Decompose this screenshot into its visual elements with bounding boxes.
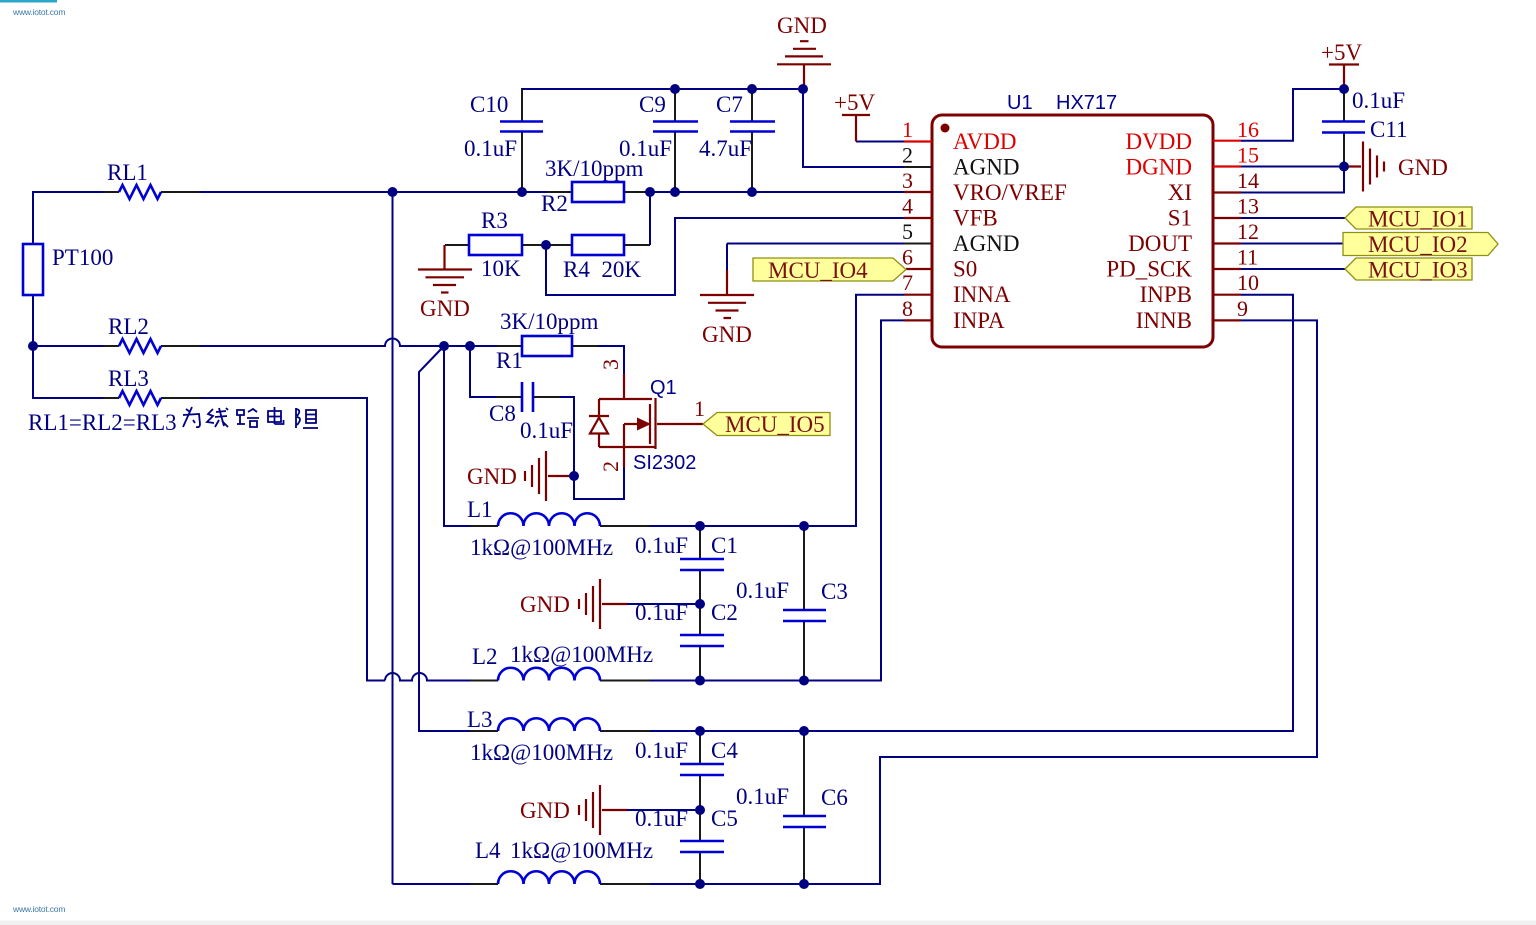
junction C7 top [747, 84, 757, 94]
ground symbol top (VRO rail) [777, 13, 831, 89]
svg-text:C11: C11 [1370, 117, 1408, 142]
svg-text:MCU_IO3: MCU_IO3 [1368, 258, 1468, 283]
svg-text:L4: L4 [475, 838, 501, 863]
svg-text:C2: C2 [711, 600, 738, 625]
junction PT100/RL2 [28, 341, 38, 351]
junction R3/R4 VFB tap [541, 240, 551, 250]
junction Q1 source GND [569, 471, 579, 481]
pin 10 INPB [1140, 270, 1259, 307]
resistor R2 3K/10ppm [541, 156, 649, 216]
resistor R3 10K [445, 208, 546, 281]
wire AGND pin5 to ground symbol [727, 243, 904, 245]
net flag MCU_IO4 [753, 258, 906, 283]
svg-text:MCU_IO4: MCU_IO4 [768, 258, 868, 283]
svg-text:2: 2 [902, 143, 913, 168]
junction top GND [798, 84, 808, 94]
svg-text:AVDD: AVDD [953, 129, 1016, 154]
wire node-B vertical to L1 row [444, 346, 498, 526]
junction C9 top [670, 84, 680, 94]
svg-text:0.1uF: 0.1uF [520, 418, 573, 443]
wire DGND pin15 [1241, 166, 1344, 168]
svg-text:L2: L2 [472, 644, 498, 669]
wire main VRO rail y=192 [161, 191, 904, 193]
capacitor C5 0.1uF [635, 806, 738, 884]
pin 5 AGND [902, 219, 1019, 256]
junction node-A on VRO rail [388, 187, 398, 197]
pin 3 VRO/VREF [902, 168, 1067, 205]
svg-text:1kΩ@100MHz: 1kΩ@100MHz [470, 740, 613, 765]
svg-text:2: 2 [598, 461, 623, 472]
svg-text:0.1uF: 0.1uF [736, 784, 789, 809]
svg-text:www.iotot.com: www.iotot.com [12, 7, 65, 17]
svg-text:10: 10 [1237, 270, 1259, 295]
svg-text:4.7uF: 4.7uF [699, 136, 752, 161]
svg-text:GND: GND [467, 464, 517, 489]
wire PT100 top lead to RL1 [33, 192, 119, 244]
junction C1/C2 GND [695, 599, 705, 609]
wire DOUT pin12 to MCU_IO2 [1241, 243, 1343, 245]
svg-text:C7: C7 [716, 92, 743, 117]
capacitor C8 0.1uF [489, 382, 573, 443]
junction C8 branch [465, 341, 475, 351]
svg-text:8: 8 [902, 296, 913, 321]
power port +5V (AVDD) [834, 90, 875, 142]
inductor L2 1kOhm@100MHz [470, 642, 653, 681]
svg-text:RL2: RL2 [108, 314, 149, 339]
capacitor C7 4.7uF [699, 89, 775, 192]
svg-text:GND: GND [1398, 155, 1448, 180]
wire L4 row [393, 883, 499, 885]
svg-text:R3: R3 [481, 208, 508, 233]
wire DVDD pin16 to +5V junction [1241, 89, 1344, 141]
svg-text:INPA: INPA [953, 308, 1005, 333]
ground symbol at R3 [418, 245, 472, 321]
pin 16 DVDD [1126, 117, 1259, 154]
capacitor C10 0.1uF [464, 89, 543, 192]
svg-text:1: 1 [694, 396, 705, 421]
wire +5V stem to C11 top [1343, 89, 1345, 122]
svg-text:C1: C1 [711, 533, 738, 558]
svg-text:C6: C6 [821, 785, 848, 810]
svg-text:R2: R2 [541, 191, 568, 216]
wire L4 row right with jog up to INNB pin 9 [600, 320, 1317, 884]
svg-text:R4 20K: R4 20K [563, 257, 641, 282]
pin 14 XI [1168, 168, 1259, 205]
svg-text:15: 15 [1237, 143, 1259, 168]
wire XI pin14 to DGND junction [1241, 167, 1344, 193]
wire top rail C10/C9/C7 to GND [522, 89, 803, 122]
wire VFB divider tap [546, 218, 904, 295]
inductor L1 1kOhm@100MHz [467, 497, 650, 560]
svg-text:1kΩ@100MHz: 1kΩ@100MHz [510, 838, 653, 863]
svg-text:5: 5 [902, 219, 913, 244]
wire S1 pin13 to MCU_IO1 [1241, 217, 1345, 219]
svg-text:3: 3 [902, 168, 913, 193]
pin 7 INNA [902, 270, 1011, 307]
svg-text:1kΩ@100MHz: 1kΩ@100MHz [510, 642, 653, 667]
resistor R4 20K [546, 235, 650, 282]
svg-text:S0: S0 [953, 257, 977, 282]
junction C3 bottom [799, 676, 809, 686]
junction C9 bottom [670, 187, 680, 197]
svg-text:RL1: RL1 [107, 160, 148, 185]
svg-text:0.1uF: 0.1uF [619, 136, 672, 161]
svg-text:1kΩ@100MHz: 1kΩ@100MHz [470, 535, 613, 560]
ground symbol between C1/C2 [520, 579, 700, 629]
junction C10 bottom [517, 187, 527, 197]
wire C11 bottom to DGND junction [1343, 133, 1345, 167]
svg-text:GND: GND [777, 13, 827, 38]
svg-text:INPB: INPB [1140, 282, 1192, 307]
svg-text:9: 9 [1237, 296, 1248, 321]
svg-text:GND: GND [520, 798, 570, 823]
transistor Q1 SI2302 [589, 359, 705, 474]
resistor PT100 [23, 244, 113, 295]
wire PT100 bottom vertical to RL2/RL3 [33, 295, 119, 398]
ground symbol at C11/DGND [1344, 142, 1448, 192]
junction C4/C5 GND [695, 805, 705, 815]
resistor RL1 [103, 160, 200, 199]
svg-text:VRO/VREF: VRO/VREF [953, 180, 1067, 205]
svg-text:AGND: AGND [953, 231, 1019, 256]
junction node-B RL2 [439, 341, 449, 351]
svg-text:GND: GND [420, 296, 470, 321]
pin 12 DOUT [1128, 219, 1259, 256]
net flag MCU_IO5 [703, 412, 830, 437]
capacitor C3 0.1uF [736, 526, 848, 681]
svg-text:PD_SCK: PD_SCK [1106, 257, 1192, 282]
wire node-A vertical RL1 to L4 row [392, 192, 394, 884]
junction R2/R4 right [645, 187, 655, 197]
svg-text:MCU_IO5: MCU_IO5 [725, 412, 825, 437]
junction C11/DGND/XI [1339, 162, 1349, 172]
wire L3 row right to INPB pin 10 [600, 295, 1293, 731]
svg-text:MCU_IO1: MCU_IO1 [1368, 207, 1468, 232]
svg-text:Q1: Q1 [650, 377, 677, 399]
wire L2 row right to INPA pin 8 [600, 320, 904, 680]
svg-text:www.iotot.com: www.iotot.com [12, 904, 65, 914]
capacitor C9 0.1uF [619, 89, 698, 192]
svg-text:GND: GND [520, 592, 570, 617]
capacitor C4 0.1uF [635, 731, 738, 810]
svg-text:HX717: HX717 [1056, 92, 1117, 114]
svg-text:12: 12 [1237, 219, 1259, 244]
pin 2 AGND [902, 143, 1019, 180]
svg-text:GND: GND [702, 322, 752, 347]
svg-text:L3: L3 [467, 707, 493, 732]
pin 4 VFB [902, 194, 998, 231]
junction C6 top [799, 726, 809, 736]
svg-text:INNB: INNB [1136, 308, 1192, 333]
wire RL3 row to left vertical of L2 [161, 398, 385, 681]
svg-text:RL3: RL3 [108, 366, 149, 391]
svg-text:0.1uF: 0.1uF [635, 738, 688, 763]
svg-text:XI: XI [1168, 180, 1192, 205]
wire L1 row right to INNA pin 7 [600, 295, 904, 526]
wire R4 right lead up to VRO rail [649, 192, 651, 245]
svg-text:0.1uF: 0.1uF [464, 136, 517, 161]
svg-text:C8: C8 [489, 401, 516, 426]
svg-text:13: 13 [1237, 194, 1259, 219]
pin 13 S1 [1168, 194, 1259, 231]
pin 15 DGND [1126, 143, 1259, 180]
svg-text:DVDD: DVDD [1126, 129, 1192, 154]
svg-text:4: 4 [902, 194, 913, 219]
svg-text:INNA: INNA [953, 282, 1011, 307]
capacitor C6 0.1uF [736, 731, 848, 884]
svg-text:SI2302: SI2302 [633, 452, 696, 474]
wire node-B diagonal to L3 vertical [419, 346, 498, 731]
svg-text:C4: C4 [711, 738, 738, 763]
capacitor C11 0.1uF [1322, 88, 1408, 142]
pin 9 INNB [1136, 296, 1248, 333]
svg-text:RL1=RL2=RL3: RL1=RL2=RL3 [28, 410, 177, 435]
svg-text:14: 14 [1237, 168, 1259, 193]
svg-text:16: 16 [1237, 117, 1259, 142]
note RL1=RL2=RL3 line resistance [28, 407, 318, 435]
junction +5V/C11 [1339, 84, 1349, 94]
wire RL2 row with hop over node-A vertical [161, 339, 624, 375]
svg-text:DGND: DGND [1126, 155, 1192, 180]
junction C2 bottom [695, 676, 705, 686]
pin 8 INPA [902, 296, 1005, 333]
svg-text:AGND: AGND [953, 155, 1019, 180]
pin 1 AVDD [902, 117, 1016, 154]
wire +5V to AVDD pin1 [856, 141, 904, 143]
junction C3 top [799, 521, 809, 531]
svg-text:C3: C3 [821, 579, 848, 604]
wire AGND pin2 from top-GND junction [803, 89, 904, 167]
svg-text:R1: R1 [496, 348, 523, 373]
junction C7 bottom [747, 187, 757, 197]
inductor L3 1kOhm@100MHz [467, 707, 650, 765]
svg-text:3K/10ppm: 3K/10ppm [500, 309, 599, 334]
resistor R1 3K/10ppm [496, 309, 599, 373]
svg-text:C9: C9 [639, 92, 666, 117]
svg-text:0.1uF: 0.1uF [635, 533, 688, 558]
cyan corner strip top-left [0, 0, 57, 3]
svg-text:0.1uF: 0.1uF [736, 578, 789, 603]
svg-text:S1: S1 [1168, 206, 1192, 231]
svg-text:7: 7 [902, 270, 913, 295]
svg-text:C5: C5 [711, 806, 738, 831]
net flag MCU_IO1 [1345, 207, 1472, 232]
net flag MCU_IO3 [1345, 258, 1472, 283]
resistor RL3 [103, 366, 200, 405]
svg-text:U1: U1 [1007, 92, 1033, 114]
capacitor C2 0.1uF [635, 600, 738, 681]
pin 11 PD_SCK [1106, 245, 1258, 282]
junction C4 top [695, 726, 705, 736]
svg-text:MCU_IO2: MCU_IO2 [1368, 232, 1468, 257]
junction C1 top [695, 521, 705, 531]
svg-text:DOUT: DOUT [1128, 231, 1192, 256]
svg-text:PT100: PT100 [52, 245, 113, 270]
ground symbol between C4/C5 [520, 785, 700, 835]
power port +5V (DVDD) [1321, 40, 1362, 89]
wire C8 branch from RL2 node [470, 346, 522, 397]
bottom light strip [0, 921, 1536, 925]
svg-text:L1: L1 [467, 497, 493, 522]
svg-text:1: 1 [902, 117, 913, 142]
inductor L4 1kOhm@100MHz [470, 838, 653, 884]
svg-text:C10: C10 [470, 92, 508, 117]
net flag MCU_IO2 [1343, 232, 1498, 257]
svg-text:+5V: +5V [1321, 40, 1362, 65]
junction C6 bottom [799, 879, 809, 889]
svg-text:0.1uF: 0.1uF [1352, 88, 1405, 113]
junction C5 bottom [695, 879, 705, 889]
svg-text:6: 6 [902, 245, 913, 270]
wire C8 right to Q1 source node [533, 397, 624, 499]
ground symbol at C8/Q1 source [467, 451, 574, 501]
wire PD_SCK pin11 to MCU_IO3 [1241, 268, 1345, 270]
ground symbol at AGND pin5 [700, 244, 754, 348]
svg-text:10K: 10K [481, 256, 521, 281]
svg-text:VFB: VFB [953, 206, 998, 231]
svg-text:11: 11 [1237, 245, 1258, 270]
pin 6 S0 [902, 245, 977, 282]
svg-text:+5V: +5V [834, 90, 875, 115]
IC U1 HX717 body [932, 92, 1213, 347]
wire L2 row hops over two verticals [385, 673, 498, 681]
capacitor C1 0.1uF [635, 526, 738, 604]
resistor RL2 [103, 314, 200, 353]
svg-text:3: 3 [598, 359, 623, 370]
